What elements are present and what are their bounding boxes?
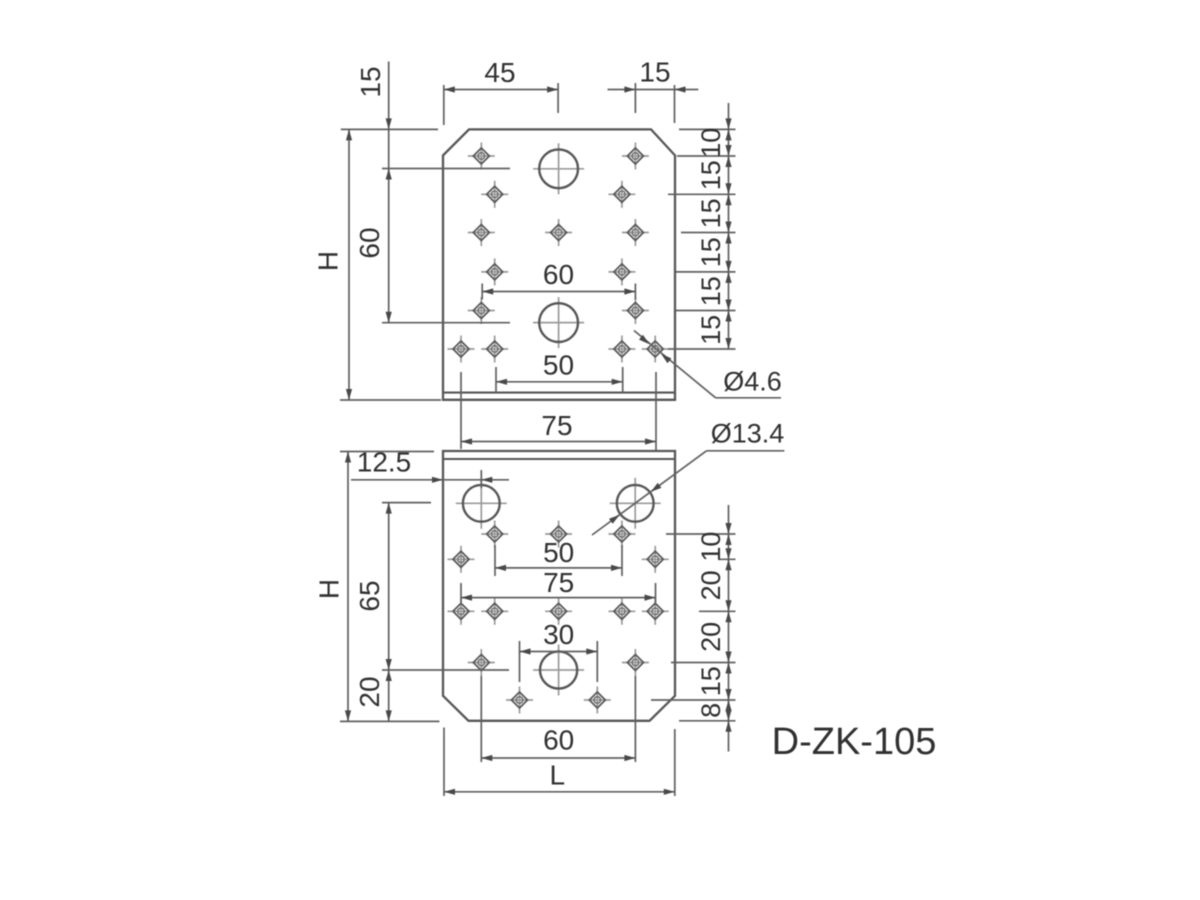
bottom plate large hole right — [610, 478, 661, 529]
top plate small hole F4 — [642, 336, 669, 363]
top plate outline — [443, 129, 675, 399]
part number label — [772, 721, 937, 763]
svg-text:15: 15 — [696, 276, 726, 306]
dimension 65 — [354, 503, 392, 670]
svg-text:20: 20 — [696, 622, 726, 652]
svg-text:10: 10 — [696, 128, 726, 158]
dimension 60 left — [354, 129, 392, 322]
dimension 75 bottom — [461, 567, 656, 605]
dimension 60 inner — [482, 259, 635, 300]
svg-text:60: 60 — [354, 227, 385, 258]
lower circle row extension line — [382, 322, 510, 324]
dimension L extension lines — [444, 728, 675, 797]
svg-text:60: 60 — [543, 725, 574, 756]
top plate small hole E2 — [622, 297, 649, 324]
svg-text:75: 75 — [543, 567, 574, 598]
dimension 50 inner — [496, 350, 623, 393]
svg-text:15: 15 — [355, 66, 386, 97]
dimension 15 top — [608, 57, 699, 93]
dimension 12.5 — [351, 447, 509, 489]
svg-text:15: 15 — [696, 666, 726, 696]
right dimension chain top plate — [668, 103, 736, 349]
bottom plate small hole G1 — [481, 521, 508, 548]
svg-text:15: 15 — [639, 57, 670, 88]
bottom plate outline — [443, 451, 675, 721]
top plate small hole C2 — [545, 219, 572, 246]
bottom plate top extension line — [340, 451, 434, 453]
upper circle row extension line — [382, 168, 510, 170]
svg-text:10: 10 — [696, 532, 726, 562]
top edge extension line — [341, 128, 438, 130]
dimension 50 bottom — [495, 537, 622, 576]
svg-text:L: L — [550, 760, 566, 791]
top plate bend line — [443, 392, 675, 394]
top plate small hole B2 — [608, 181, 635, 208]
svg-text:20: 20 — [696, 570, 726, 600]
dimension 75 gap — [461, 410, 656, 445]
svg-text:8: 8 — [696, 703, 726, 718]
svg-text:30: 30 — [543, 619, 574, 650]
top plate small hole E1 — [468, 297, 495, 324]
top plate large hole lower — [533, 297, 584, 348]
dimension 45 — [444, 57, 558, 93]
svg-text:Ø4.6: Ø4.6 — [723, 367, 782, 397]
svg-text:45: 45 — [484, 57, 515, 88]
bottom plate small hole G3 — [608, 521, 635, 548]
svg-text:60: 60 — [543, 259, 574, 290]
svg-text:15: 15 — [696, 160, 726, 190]
bottom plate small hole K1 — [506, 687, 533, 714]
svg-text:H: H — [314, 579, 345, 599]
svg-text:Ø13.4: Ø13.4 — [711, 419, 785, 449]
top plate small hole D2 — [608, 258, 635, 285]
top plate small hole C3 — [622, 219, 649, 246]
svg-text:15: 15 — [696, 237, 726, 267]
dimension 75 gap extension lines — [461, 372, 656, 451]
center circle row extension line — [382, 669, 509, 671]
bottom plate small hole I3 — [545, 598, 572, 625]
top plate small hole A2 — [622, 143, 649, 170]
dimension 60 bottom extension lines — [481, 676, 635, 762]
bottom plate small hole K2 — [584, 687, 611, 714]
bottom plate small hole I5 — [642, 598, 669, 625]
top plate small hole A1 — [468, 143, 495, 170]
bottom plate large hole center — [533, 645, 584, 696]
svg-text:15: 15 — [696, 315, 726, 345]
dimension 15 top extension lines — [635, 83, 674, 123]
bottom plate small hole I2 — [481, 598, 508, 625]
dimension 60 bottom — [481, 725, 635, 762]
top plate small hole F2 — [481, 336, 508, 363]
diameter 13.4 callout — [592, 419, 784, 536]
bottom plate large hole left — [456, 478, 507, 529]
dimension 65 extension line — [382, 502, 431, 504]
diameter 4.6 callout — [634, 331, 782, 398]
bottom plate small hole G2 — [545, 521, 572, 548]
top plate small hole F3 — [608, 336, 635, 363]
bottom plate bottom extension line — [340, 720, 439, 722]
dimension 15 left — [355, 62, 392, 130]
bottom plate small hole H2 — [642, 546, 669, 573]
top plate bottom extension line — [340, 399, 441, 401]
bottom plate small hole J1 — [468, 649, 495, 676]
bottom plate small hole I1 — [448, 598, 475, 625]
dimension 20 left — [354, 670, 392, 721]
right dimension chain bottom plate — [651, 505, 736, 752]
top plate small hole C1 — [468, 219, 495, 246]
bottom plate small hole H1 — [448, 546, 475, 573]
top plate large hole upper — [533, 143, 584, 194]
svg-text:50: 50 — [543, 350, 574, 381]
dimension L — [444, 760, 675, 795]
dimension 45 extension lines — [444, 83, 558, 125]
dimension H top plate — [313, 129, 353, 400]
dimension H bottom plate — [314, 452, 352, 722]
top plate small hole B1 — [481, 181, 508, 208]
dimension 30 — [520, 619, 598, 682]
svg-text:H: H — [313, 251, 344, 271]
top plate small hole D1 — [481, 258, 508, 285]
svg-text:65: 65 — [354, 580, 385, 611]
svg-text:20: 20 — [354, 676, 385, 707]
top plate small hole F1 — [448, 336, 475, 363]
bottom plate small hole I4 — [608, 598, 635, 625]
svg-text:75: 75 — [541, 410, 572, 441]
svg-text:15: 15 — [696, 198, 726, 228]
bottom plate small hole J2 — [622, 649, 649, 676]
bottom plate bend line — [443, 458, 675, 460]
svg-text:D-ZK-105: D-ZK-105 — [772, 721, 937, 763]
svg-text:50: 50 — [543, 537, 574, 568]
